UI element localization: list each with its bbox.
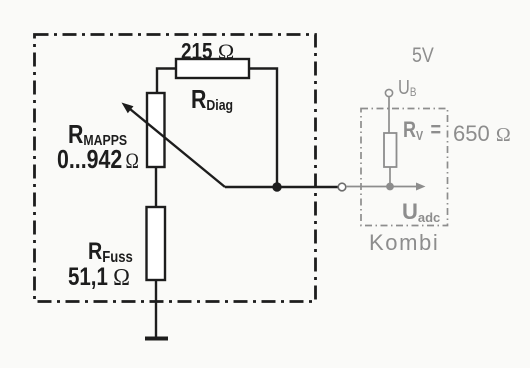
wire RMAPPS bottom to RFuss top: [155, 167, 157, 207]
label RMAPPS: [68, 121, 127, 147]
wire UB to RV: [388, 97, 390, 133]
resistor RDiag: [176, 59, 249, 78]
label 51,1 Ohm value of RFuss: [68, 265, 127, 290]
terminal UB (open circle): [385, 89, 392, 96]
wire output node to terminal: [277, 186, 338, 188]
label 215 Ohm value of RDiag: [181, 40, 232, 63]
wiper arrow of RMAPPS: [122, 103, 226, 188]
label 0...942 Ohm value of RMAPPS: [57, 146, 139, 172]
label Uadc: [402, 201, 440, 223]
label 650 Ohm value of RV: [453, 123, 511, 145]
wire wiper bend to output node: [225, 186, 277, 188]
Kombi dash-dot box: [361, 109, 448, 226]
resistor RFuss: [147, 207, 166, 280]
wire RFuss bottom to ground: [155, 280, 157, 338]
label RDiag: [191, 86, 233, 112]
wire RV to Uadc node: [389, 167, 391, 183]
ground: [145, 337, 168, 341]
label RFuss: [88, 240, 133, 264]
terminal connector (open circle): [338, 183, 346, 191]
node output junction: [272, 182, 281, 191]
enclosure dash-dot border (sensor module box): [35, 35, 316, 302]
resistor RV: [384, 133, 397, 167]
label RV: [403, 119, 441, 141]
label Kombi: [369, 232, 439, 254]
wire from RDiag right down to output node: [249, 69, 277, 188]
potentiometer resistor RMAPPS: [147, 93, 165, 167]
label UB: [398, 78, 416, 98]
wire from RDiag left to RMAPPS top: [157, 69, 176, 95]
label 5V supply: [412, 45, 434, 66]
node Uadc junction: [386, 183, 394, 191]
wire signal arrow to ADC: [346, 183, 426, 191]
